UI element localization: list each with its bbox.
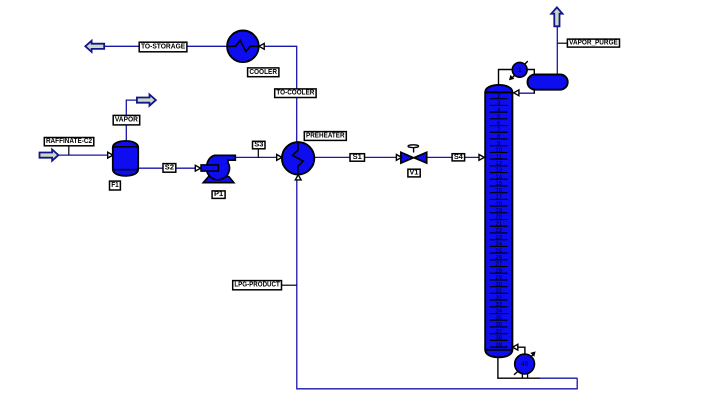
svg-text:S1: S1 [353,154,362,161]
svg-text:26: 26 [495,255,501,261]
svg-text:35: 35 [495,315,501,321]
svg-text:S4: S4 [454,154,463,161]
svg-text:20: 20 [495,215,501,221]
svg-text:V1: V1 [410,170,419,177]
svg-text:14: 14 [495,174,502,180]
svg-text:VAPOR_PURGE: VAPOR_PURGE [569,40,618,47]
svg-text:16: 16 [495,188,501,194]
svg-text:31: 31 [495,289,501,295]
svg-text:PREHEATER: PREHEATER [306,133,345,140]
svg-text:32: 32 [495,295,501,301]
svg-text:25: 25 [495,248,501,254]
svg-text:COOLER: COOLER [249,69,277,76]
svg-text:37: 37 [495,329,501,335]
svg-text:15: 15 [495,181,501,187]
svg-text:11: 11 [496,154,502,160]
svg-text:34: 34 [495,309,502,315]
svg-text:VAPOR: VAPOR [115,117,138,124]
svg-text:29: 29 [495,275,501,281]
svg-text:40: 40 [521,362,527,368]
svg-text:1: 1 [518,67,522,74]
svg-text:LPG-PRODUCT: LPG-PRODUCT [234,282,280,289]
svg-text:38: 38 [495,336,501,342]
svg-text:6: 6 [497,121,500,127]
svg-text:9: 9 [497,141,500,147]
svg-text:23: 23 [495,235,501,241]
svg-text:24: 24 [495,242,502,248]
svg-text:8: 8 [497,134,500,140]
svg-text:18: 18 [495,201,501,207]
svg-text:19: 19 [495,208,501,214]
svg-text:RAFFINATE-C2: RAFFINATE-C2 [46,138,92,145]
svg-text:S2: S2 [165,164,174,171]
svg-text:3: 3 [497,101,500,107]
svg-text:S3: S3 [254,142,263,149]
svg-text:39: 39 [495,342,501,348]
svg-text:P1: P1 [214,191,223,198]
svg-text:36: 36 [495,322,501,328]
svg-text:2: 2 [497,94,500,100]
svg-text:10: 10 [495,148,501,154]
svg-text:21: 21 [495,221,501,227]
svg-text:F1: F1 [111,182,119,189]
svg-text:27: 27 [495,262,501,268]
svg-text:22: 22 [495,228,501,234]
svg-text:33: 33 [495,302,501,308]
svg-text:28: 28 [495,268,501,274]
svg-text:13: 13 [495,168,501,174]
svg-text:5: 5 [497,114,500,120]
svg-text:7: 7 [497,127,500,133]
svg-text:TO-COOLER: TO-COOLER [276,90,314,97]
svg-text:30: 30 [495,282,501,288]
svg-text:TO-STORAGE: TO-STORAGE [141,44,186,51]
svg-text:12: 12 [495,161,501,167]
svg-text:17: 17 [495,195,501,201]
